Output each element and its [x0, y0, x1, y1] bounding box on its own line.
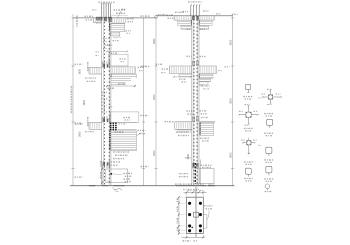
svg-text:3600: 3600 — [79, 131, 82, 137]
svg-text:3600: 3600 — [153, 38, 156, 44]
svg-text:3600: 3600 — [153, 150, 156, 156]
svg-text:3600: 3600 — [79, 69, 82, 75]
svg-text:3600: 3600 — [187, 154, 190, 160]
svg-text:3600: 3600 — [229, 152, 232, 158]
svg-text:3600: 3600 — [83, 100, 86, 106]
svg-text:3600: 3600 — [229, 39, 232, 45]
svg-text:3600: 3600 — [229, 98, 232, 104]
svg-text:3600: 3600 — [153, 94, 156, 100]
